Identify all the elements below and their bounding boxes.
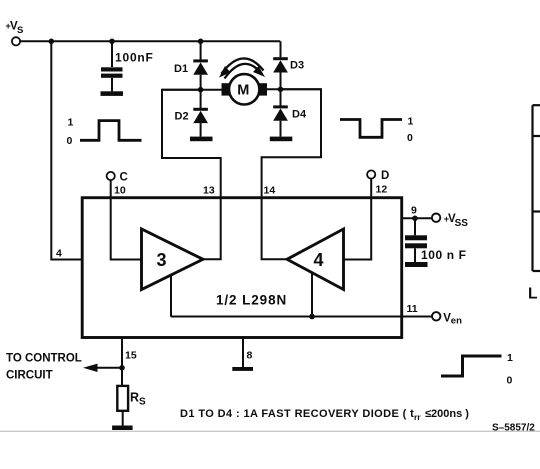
IC box 1/2 L298N [82,198,402,338]
wire amp4 enable [311,273,313,317]
node motor-right [278,87,284,93]
motor M [222,74,268,104]
svg-text:0: 0 [67,135,73,147]
label 8 [247,350,253,362]
label 3 [157,250,167,270]
svg-text:15: 15 [125,350,137,362]
terminal +Vss [432,214,440,222]
terminal D [367,170,375,178]
terminal C [107,172,115,180]
wire bridge-right to pin14 [262,89,321,198]
svg-text:14: 14 [264,185,276,197]
label 9 [411,205,417,217]
label 11 [407,303,418,315]
label 10 [114,185,126,197]
svg-text:12: 12 [376,184,388,196]
capacitor C2 100nF [405,218,427,262]
svg-text:13: 13 [203,185,215,197]
ground D4 [270,137,293,142]
node enable [309,314,315,320]
svg-text:1: 1 [68,116,74,128]
svg-text:CIRCUIT: CIRCUIT [6,370,53,382]
terminal +Vs [12,37,20,45]
svg-text:SS: SS [455,218,469,229]
label 15 [125,350,137,362]
svg-text:4: 4 [56,248,62,260]
label D2 [175,110,189,122]
label 14 [264,185,276,197]
label 13 [203,185,215,197]
ground pin8 [232,367,253,371]
node pin9-C2 [412,216,418,222]
svg-text:D2: D2 [175,110,189,122]
svg-text:S: S [17,25,23,36]
svg-text:3: 3 [157,250,167,270]
wire amp3 output to pin13 [203,199,221,260]
svg-text:4: 4 [314,250,324,270]
svg-text:C: C [120,171,128,183]
svg-text:≤200ns ): ≤200ns ) [425,408,469,420]
diode D2 [193,90,208,137]
svg-text:TO CONTROL: TO CONTROL [6,353,82,365]
diode D4 [273,89,288,136]
wire pin10 [111,180,142,259]
svg-text:11: 11 [407,303,418,315]
svg-text:D: D [381,170,389,182]
wire enable line pin11 [171,316,432,318]
label D [381,170,389,182]
label Ven [443,312,462,326]
label 0 (left pulse) [67,135,73,147]
wire bridge-left to pin13 [162,90,221,199]
wire RS to ground [122,411,124,426]
node motor-left [198,87,204,93]
label D1 [174,63,188,75]
wire to control arrow [95,367,122,369]
svg-text:1/2 L298N: 1/2 L298N [216,293,287,308]
label D4 [292,109,307,121]
label D3 [290,59,304,71]
label +Vs [6,21,24,36]
diode D3 [273,41,288,89]
node supply-C1 [109,39,115,45]
svg-text:R: R [130,391,139,405]
label 100nF [115,51,154,65]
ground C1 [101,91,124,96]
svg-text:1: 1 [408,115,414,127]
svg-text:0: 0 [407,132,413,144]
label 4 [56,248,62,260]
label 0 (step) [507,375,513,387]
svg-text:100 n F: 100 n F [421,248,467,262]
waveform input D pulse [340,120,402,138]
label 0 (right pulse) [407,132,413,144]
ground RS [112,426,133,431]
ground D2 [190,137,213,142]
svg-text:rr: rr [414,412,421,422]
wire +Vs rail [20,40,280,42]
label TO CONTROL CIRCUIT [6,353,82,382]
svg-text:D4: D4 [292,109,307,121]
wire amp4 output to pin14 [262,199,287,260]
wire pin9 [402,217,432,219]
wire pin15 [121,338,123,386]
label S-5857/2 [492,423,535,434]
svg-text:D1 TO D4 : 1A FAST RECOVERY D: D1 TO D4 : 1A FAST RECOVERY DIODE ( t [180,408,414,420]
node pin15 [119,365,125,371]
label 1 (right pulse) [408,115,414,127]
svg-text:10: 10 [114,185,126,197]
svg-text:D1: D1 [174,63,188,75]
label L [528,286,537,303]
wire motor-right [267,88,321,90]
node supply-D1 [198,39,204,45]
svg-text:L: L [528,286,537,303]
resistor RS [117,386,128,411]
svg-text:8: 8 [247,350,253,362]
op-amp 3 [142,229,204,290]
capacitor C1 100nF [101,41,123,91]
ground C2 [405,262,428,267]
note D1 to D4 [180,408,469,422]
wire pin12 [344,179,372,260]
svg-text:M: M [237,83,249,99]
label 1 (step) [507,352,513,364]
svg-text:en: en [451,315,462,326]
node supply-pin4 [49,39,55,45]
label 4 [314,250,324,270]
wire amp3 enable [170,276,172,317]
waveform input C pulse [80,121,142,141]
label C [120,171,128,183]
wire pin8 [242,338,244,368]
label +Vss [444,213,468,229]
scan fold line [0,430,540,432]
svg-text:0: 0 [507,375,513,387]
op-amp 4 [287,229,344,290]
label RS [130,391,146,408]
svg-text:S: S [139,397,146,408]
svg-text:1: 1 [507,352,513,364]
svg-text:9: 9 [411,205,417,217]
terminal Ven [432,312,440,320]
wire pin4 drop [51,41,81,259]
svg-text:100nF: 100nF [115,51,154,65]
svg-text:D3: D3 [290,59,304,71]
label 100 n F [421,248,467,262]
truth table fragment [533,105,540,271]
rotation arrows [219,58,265,78]
waveform enable step [441,356,502,376]
diode D1 [193,41,208,89]
label 12 [376,184,388,196]
label 1 (left pulse) [68,116,74,128]
label 1/2 L298N [216,293,287,308]
wire motor-left [162,89,222,91]
